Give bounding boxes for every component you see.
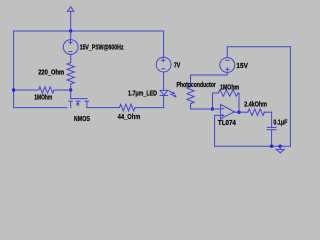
svg-text:44_Ohm: 44_Ohm: [118, 112, 141, 121]
wire top-right rail: [227, 46, 290, 48]
svg-text:0.1μF: 0.1μF: [273, 118, 287, 127]
V1 minus sign: [69, 51, 72, 53]
LED light emission arrows: [169, 91, 177, 97]
wire top rail: [14, 30, 164, 32]
svg-text:Photoconductor: Photoconductor: [177, 80, 216, 89]
wire feedback down to output: [238, 93, 240, 112]
wire 1Mohm right lead: [54, 89, 71, 91]
svg-text:NMOS: NMOS: [74, 114, 90, 123]
wire top rail drop to V2: [163, 31, 165, 57]
V1 plus sign: [69, 41, 72, 44]
wire minus input: [213, 108, 221, 110]
node minus input junction: [211, 107, 214, 110]
wire LED bottom lead: [163, 96, 165, 108]
resistor 2.4kOhm: [248, 109, 265, 116]
source V3 15V circle: [220, 58, 235, 73]
svg-text:15V_PSW@600Hz: 15V_PSW@600Hz: [80, 42, 124, 51]
resistor 1MOhm feedback: [218, 90, 238, 97]
wire photoconductor top lead: [190, 75, 192, 87]
wire right rail: [289, 47, 291, 147]
wire photoconductor bottom lead: [190, 104, 192, 109]
source V1 15V_PSW@600Hz circle: [63, 40, 78, 55]
svg-text:1.7μm_LED: 1.7μm_LED: [128, 89, 157, 98]
svg-text:TL074: TL074: [218, 118, 237, 127]
node gate junction: [69, 88, 72, 91]
wire to minus node: [191, 108, 213, 110]
wire output to 2.4k: [239, 111, 248, 113]
svg-text:2.4kOhm: 2.4kOhm: [244, 99, 267, 108]
node ground junction: [279, 145, 282, 148]
wire down to cap: [271, 112, 273, 127]
wire V3 to photoconductor: [191, 74, 228, 76]
op-amp U1 TL074: [221, 105, 235, 119]
wire V1 top lead: [70, 31, 72, 40]
node cap junction: [270, 145, 273, 148]
power arrow net symbol: [68, 7, 74, 12]
svg-text:1MOhm: 1MOhm: [220, 82, 239, 91]
V3 minus sign: [226, 59, 229, 61]
wire V3 top lead: [226, 47, 228, 58]
wire bottom rail left: [14, 107, 67, 109]
wire V3 bottom lead: [226, 72, 228, 75]
wire bottom rail to LED: [135, 107, 164, 109]
svg-text:1MOhm: 1MOhm: [34, 92, 52, 101]
source V2 7V circle: [156, 57, 171, 72]
wire V1 bottom lead: [70, 54, 72, 62]
diode LED 1.7um: [160, 90, 168, 95]
capacitor 0.1uF: [267, 127, 276, 129]
node output junction: [237, 111, 240, 114]
V2 minus sign: [162, 68, 165, 70]
transistor NMOS: [69, 90, 89, 108]
V2 plus sign: [162, 59, 165, 62]
wire left rail: [13, 31, 15, 108]
wire bottom rail mid: [87, 107, 120, 109]
ground: [276, 146, 284, 153]
wire 1Mohm left lead: [14, 89, 39, 91]
wire bottom-right rail: [215, 145, 291, 147]
svg-text:15V: 15V: [236, 61, 248, 70]
node top-rail junction: [69, 29, 72, 32]
wire V2 to LED: [163, 72, 165, 90]
node left-rail junction: [12, 88, 15, 91]
resistor 44_Ohm: [119, 104, 134, 111]
svg-text:220_Ohm: 220_Ohm: [38, 68, 64, 77]
resistor 1MOhm: [39, 87, 54, 93]
svg-text:7V: 7V: [174, 61, 181, 70]
wire plus drop: [214, 115, 216, 146]
wire output: [234, 111, 239, 113]
resistor 220_Ohm: [67, 63, 74, 84]
resistor Photoconductor: [187, 87, 194, 104]
V3 plus sign: [226, 68, 229, 71]
wire feedback top right: [238, 92, 239, 94]
wire feedback top left: [213, 92, 219, 94]
wire feedback up: [212, 93, 214, 109]
wire cap bottom lead: [271, 130, 273, 147]
wire plus input: [215, 114, 221, 116]
wire 220ohm bottom lead: [70, 84, 72, 90]
wire 2.4k right lead: [264, 111, 271, 113]
wire arrow stem: [70, 11, 72, 31]
